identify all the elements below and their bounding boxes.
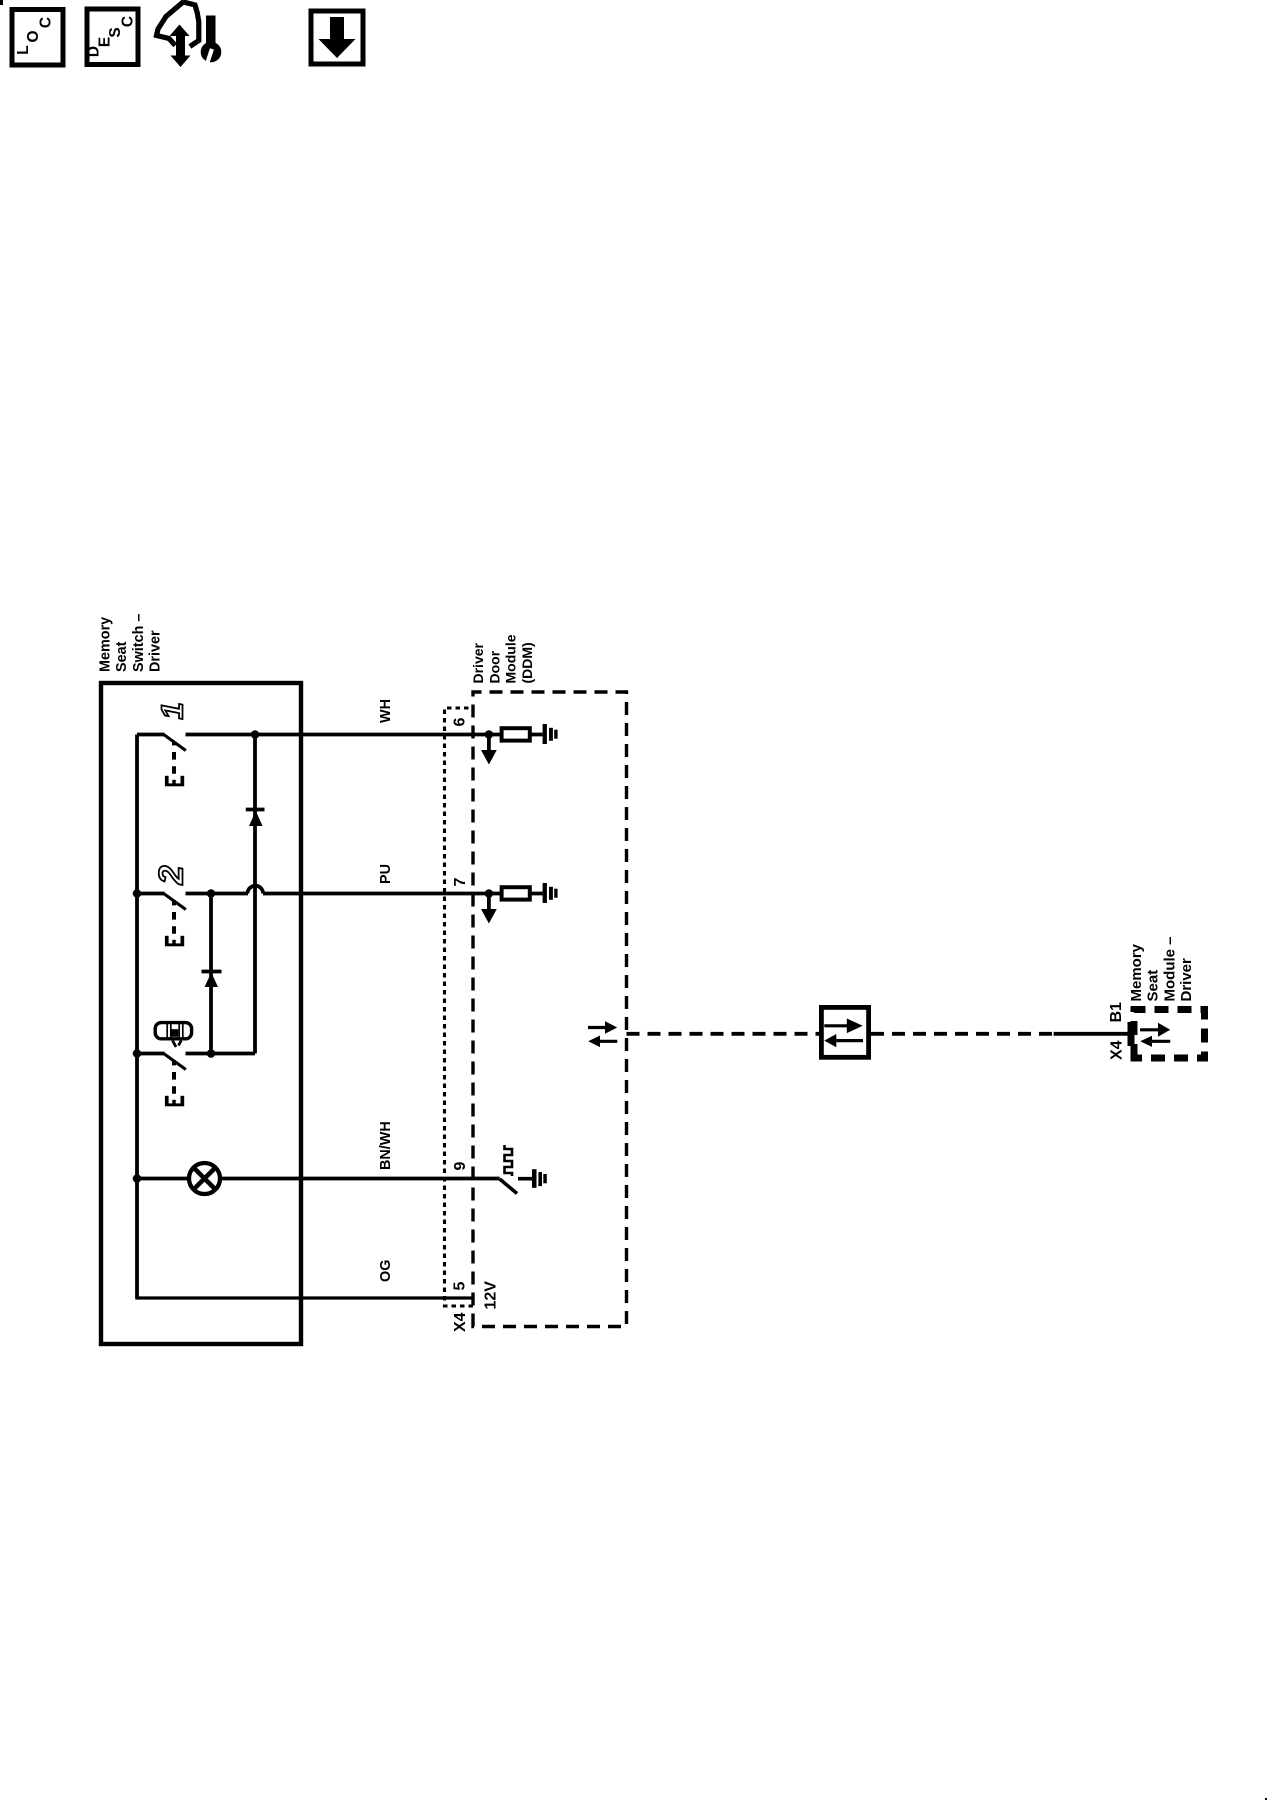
svg-text:Driver: Driver: [148, 630, 164, 672]
svg-text:OG: OG: [378, 1260, 394, 1282]
svg-text:Module: Module: [503, 634, 519, 683]
svg-text:Door: Door: [486, 650, 502, 683]
svg-text:Memory: Memory: [1128, 943, 1145, 1001]
svg-text:WH: WH: [378, 699, 394, 723]
svg-text:5: 5: [452, 1282, 469, 1291]
svg-text:2: 2: [153, 866, 191, 886]
svg-text:BN/WH: BN/WH: [378, 1121, 394, 1170]
svg-text:9: 9: [452, 1162, 469, 1171]
svg-text:Seat: Seat: [114, 641, 130, 672]
svg-text:1: 1: [155, 702, 190, 719]
svg-text:S: S: [107, 27, 124, 37]
svg-text:C: C: [120, 16, 137, 27]
svg-text:O: O: [25, 30, 42, 42]
svg-text:C: C: [38, 17, 55, 28]
svg-text:Module –: Module –: [1161, 936, 1178, 1001]
svg-text:L: L: [15, 45, 32, 54]
svg-text:7: 7: [452, 878, 469, 887]
svg-text:Seat: Seat: [1145, 970, 1162, 1002]
svg-text:Driver: Driver: [470, 642, 486, 683]
svg-text:Memory: Memory: [98, 617, 114, 672]
svg-text:(DDM): (DDM): [519, 642, 535, 683]
svg-text:X4: X4: [1109, 1040, 1126, 1060]
svg-text:X4: X4: [452, 1312, 469, 1332]
svg-text:Driver: Driver: [1178, 958, 1195, 1002]
svg-text:Switch –: Switch –: [131, 614, 147, 672]
svg-text:B1: B1: [1108, 1002, 1125, 1023]
svg-text:PU: PU: [378, 864, 394, 884]
svg-text:6: 6: [452, 718, 469, 727]
svg-text:12V: 12V: [483, 1281, 500, 1310]
